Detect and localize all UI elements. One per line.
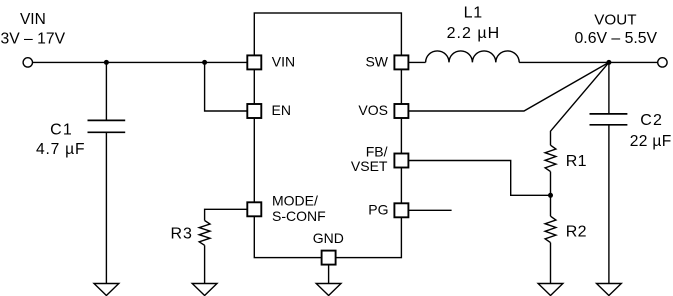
svg-text:R2: R2 xyxy=(566,224,587,241)
wire: C2 bottom lead xyxy=(608,125,610,284)
resistor R2 xyxy=(545,216,556,242)
svg-text:R1: R1 xyxy=(566,153,587,170)
capacitor C2 xyxy=(590,113,628,115)
capacitor C1 xyxy=(88,119,126,121)
wire: FB/VSET to divider tap xyxy=(408,161,550,196)
svg-text:22 µF: 22 µF xyxy=(630,133,672,150)
wire: SW to L1 xyxy=(408,61,425,63)
node: feedback divider tap xyxy=(548,193,553,198)
svg-text:VSET: VSET xyxy=(351,158,388,174)
svg-text:L1: L1 xyxy=(464,5,483,22)
ground: below R3 xyxy=(192,284,217,296)
svg-text:4.7 µF: 4.7 µF xyxy=(36,141,85,158)
resistor R1 xyxy=(545,145,556,171)
svg-text:C2: C2 xyxy=(640,112,663,129)
pin square: VOS xyxy=(394,104,408,118)
ground: below R2 xyxy=(538,284,563,296)
svg-text:VIN: VIN xyxy=(272,54,295,70)
svg-text:EN: EN xyxy=(272,102,291,118)
node: C1 junction on VIN rail xyxy=(104,60,109,65)
node: VOUT junction xyxy=(606,60,611,65)
ground: below GND pin xyxy=(316,284,341,296)
svg-text:VIN: VIN xyxy=(20,11,46,28)
node: EN junction on VIN rail xyxy=(202,60,207,65)
wire: R1 bottom to tap to R2 top xyxy=(550,172,552,217)
svg-text:0.6V – 5.5V: 0.6V – 5.5V xyxy=(575,30,658,47)
inductor L1 xyxy=(426,51,520,63)
wire: L1 to VOUT xyxy=(519,61,658,63)
wire: C2 top lead xyxy=(608,62,610,114)
svg-text:R3: R3 xyxy=(171,225,193,242)
IC U1 body xyxy=(254,13,401,258)
wire: PG stub xyxy=(408,209,451,211)
svg-text:GND: GND xyxy=(313,230,344,246)
pin square: FB xyxy=(394,154,408,168)
pin square: EN xyxy=(247,104,261,118)
ground: below C2 xyxy=(597,284,622,296)
terminal: VIN input circle xyxy=(23,58,32,67)
svg-text:C1: C1 xyxy=(50,122,73,139)
wire: C1 top lead xyxy=(105,62,107,120)
wire: EN connection from VIN rail xyxy=(205,62,248,111)
svg-text:MODE/: MODE/ xyxy=(272,192,318,208)
svg-text:PG: PG xyxy=(368,202,388,218)
svg-text:VOS: VOS xyxy=(358,102,388,118)
wire: VOS sense line xyxy=(408,62,609,111)
resistor R3 xyxy=(199,221,210,246)
pin square: VIN xyxy=(247,55,261,69)
ground: below C1 xyxy=(94,284,119,296)
svg-text:3V – 17V: 3V – 17V xyxy=(1,31,66,48)
terminal: VOUT circle xyxy=(658,58,667,67)
wire: VIN input rail xyxy=(33,61,248,63)
pin square: PG xyxy=(394,203,408,217)
pin square: SW xyxy=(394,55,408,69)
wire: R2 bottom lead xyxy=(550,243,552,284)
pin square: MODE xyxy=(247,202,261,216)
wire: MODE/S-CONF to R3 xyxy=(205,209,248,220)
svg-text:VOUT: VOUT xyxy=(594,11,636,28)
wire: C1 bottom lead xyxy=(105,132,107,283)
wire: R3 bottom lead xyxy=(204,245,206,283)
svg-text:S-CONF: S-CONF xyxy=(272,208,326,224)
wire: GND pin lead xyxy=(328,265,330,284)
pin square: GND xyxy=(322,251,336,265)
svg-text:SW: SW xyxy=(365,54,388,70)
svg-text:2.2 µH: 2.2 µH xyxy=(447,25,500,42)
wire: VOUT to R1 top xyxy=(551,62,609,145)
